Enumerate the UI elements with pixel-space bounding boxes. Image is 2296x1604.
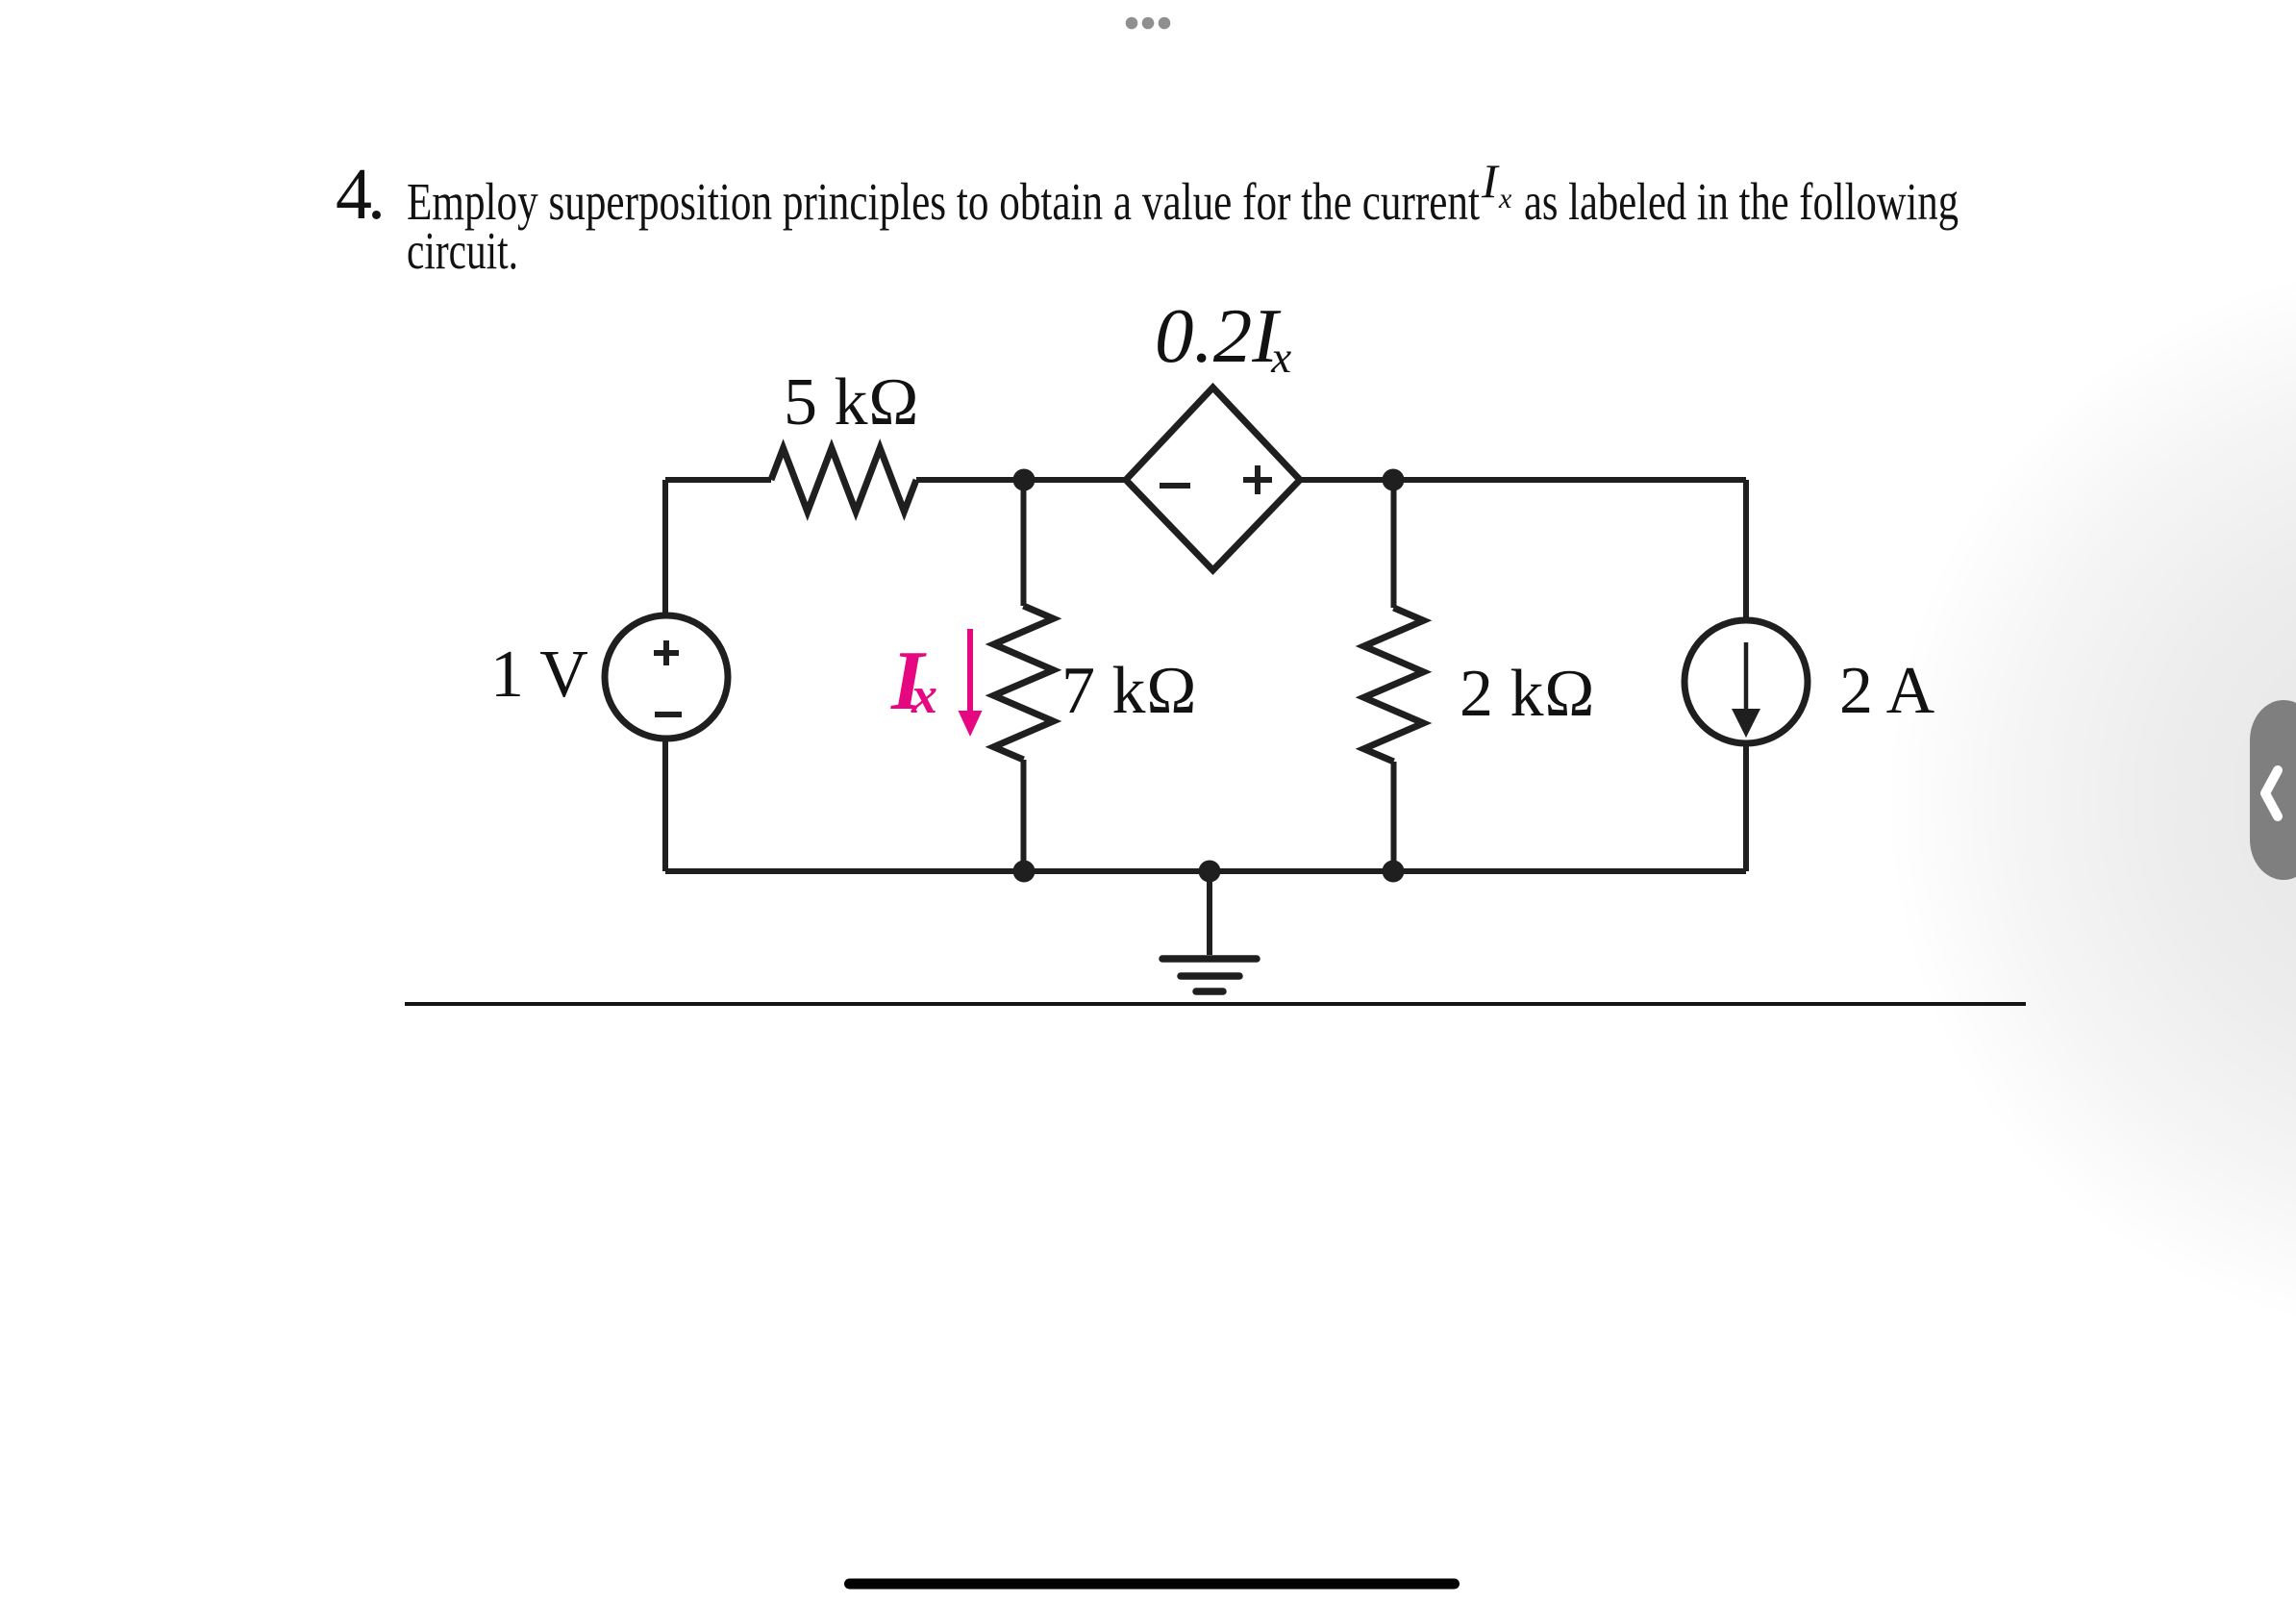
svg-text:2 kΩ: 2 kΩ bbox=[1460, 657, 1595, 731]
svg-text:1 V: 1 V bbox=[490, 638, 588, 712]
svg-text:Employ superposition principle: Employ superposition principles to obtai… bbox=[407, 172, 1480, 231]
svg-text:as labeled in the following: as labeled in the following bbox=[1524, 172, 1959, 231]
svg-text:2 A: 2 A bbox=[1839, 654, 1935, 728]
svg-text:I: I bbox=[1481, 154, 1500, 208]
svg-text:4.: 4. bbox=[336, 154, 386, 235]
svg-text:x: x bbox=[1498, 183, 1512, 214]
svg-text:circuit.: circuit. bbox=[407, 221, 518, 280]
svg-text:x: x bbox=[911, 666, 937, 724]
svg-text:7 kΩ: 7 kΩ bbox=[1061, 654, 1197, 728]
svg-text:0.2Ix: 0.2Ix bbox=[1155, 292, 1291, 383]
svg-text:5 kΩ: 5 kΩ bbox=[784, 365, 919, 439]
